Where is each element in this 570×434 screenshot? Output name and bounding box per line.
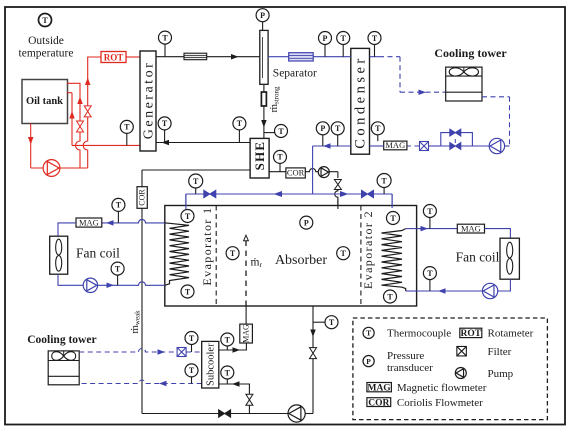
svg-text:Subcooler: Subcooler — [206, 343, 217, 386]
svg-text:T: T — [341, 34, 347, 43]
svg-text:ROT: ROT — [104, 52, 124, 62]
svg-text:Absorber: Absorber — [275, 253, 327, 268]
svg-text:T: T — [366, 329, 371, 338]
svg-text:ROT: ROT — [461, 329, 482, 339]
svg-text:T: T — [427, 207, 433, 216]
svg-text:P: P — [366, 357, 371, 366]
svg-text:T: T — [329, 318, 335, 327]
svg-text:P: P — [304, 218, 309, 227]
svg-text:T: T — [390, 214, 396, 223]
svg-text:T: T — [427, 269, 433, 278]
svg-text:MAG: MAG — [385, 140, 405, 150]
svg-text:COR: COR — [287, 168, 305, 178]
svg-text:T: T — [185, 287, 191, 296]
svg-text:Condenser: Condenser — [352, 55, 368, 149]
svg-text:Rotameter: Rotameter — [488, 328, 534, 340]
svg-text:transducer: transducer — [387, 362, 433, 374]
svg-text:Separator: Separator — [273, 68, 317, 80]
svg-text:Evaporator 1: Evaporator 1 — [200, 206, 214, 285]
svg-text:Generator: Generator — [141, 61, 156, 139]
svg-text:T: T — [162, 33, 168, 42]
svg-text:Oil tank: Oil tank — [26, 96, 63, 107]
svg-text:SHE: SHE — [252, 141, 267, 171]
svg-text:T: T — [42, 16, 48, 25]
svg-text:MAG: MAG — [79, 217, 99, 227]
svg-text:T: T — [189, 334, 195, 343]
svg-text:MAG: MAG — [461, 223, 481, 233]
svg-text:Outside: Outside — [28, 35, 64, 47]
svg-text:Coriolis Flowmeter: Coriolis Flowmeter — [397, 397, 483, 409]
svg-text:T: T — [387, 292, 393, 301]
svg-text:P: P — [260, 11, 265, 20]
svg-text:T: T — [193, 177, 199, 186]
svg-text:Fan coil: Fan coil — [76, 246, 120, 261]
svg-text:T: T — [372, 34, 378, 43]
svg-text:COR: COR — [368, 398, 389, 408]
svg-text:Cooling tower: Cooling tower — [27, 334, 96, 346]
svg-text:T: T — [185, 212, 191, 221]
svg-text:T: T — [230, 249, 236, 258]
svg-text:COR: COR — [138, 189, 147, 206]
svg-text:MAG: MAG — [242, 324, 251, 343]
svg-text:Thermocouple: Thermocouple — [387, 327, 451, 339]
svg-text:Pump: Pump — [488, 368, 514, 380]
svg-text:T: T — [375, 124, 381, 133]
svg-text:Pressure: Pressure — [387, 350, 424, 362]
svg-text:T: T — [381, 176, 387, 185]
svg-text:Evaporator 2: Evaporator 2 — [361, 210, 375, 289]
svg-text:T: T — [277, 153, 283, 162]
svg-text:T: T — [278, 127, 284, 136]
svg-text:P: P — [320, 124, 325, 133]
svg-text:T: T — [341, 249, 347, 258]
svg-text:Magnetic flowmeter: Magnetic flowmeter — [397, 382, 487, 394]
svg-text:T: T — [116, 201, 122, 210]
svg-text:T: T — [225, 368, 231, 377]
svg-text:T: T — [225, 335, 231, 344]
svg-text:P: P — [323, 34, 328, 43]
svg-text:T: T — [189, 366, 195, 375]
svg-text:temperature: temperature — [19, 48, 74, 60]
svg-text:T: T — [162, 119, 168, 128]
svg-text:Filter: Filter — [488, 346, 512, 358]
svg-text:MAG: MAG — [367, 383, 391, 393]
svg-text:Fan coil: Fan coil — [456, 250, 500, 265]
svg-text:Cooling tower: Cooling tower — [434, 46, 507, 60]
svg-text:T: T — [335, 124, 341, 133]
svg-text:T: T — [115, 264, 121, 273]
svg-text:T: T — [237, 119, 243, 128]
svg-text:T: T — [124, 123, 130, 132]
